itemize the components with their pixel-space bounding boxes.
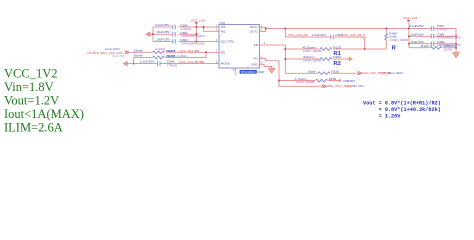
wire OUT2 stub (260, 31, 266, 33)
svg-text:1/16W_1608M: 1/16W_1608M (302, 49, 321, 53)
resistor R1 (320, 48, 332, 51)
wire (160, 63, 219, 65)
wire EN row (131, 51, 153, 53)
svg-text:Iout<1A(MAX): Iout<1A(MAX) (4, 107, 84, 121)
op-amp U15 regulator body (219, 25, 260, 69)
junction (364, 48, 366, 50)
wire R2 row (285, 58, 346, 60)
capacitor C389 (431, 42, 433, 47)
svg-text:1/16W_1608M: 1/16W_1608M (389, 38, 408, 42)
node output bus (408, 21, 410, 48)
power node VDB3P3 (339, 80, 341, 82)
junction (455, 47, 457, 49)
capacitor C380 (173, 25, 175, 30)
wire FB pin (260, 44, 286, 46)
junction (265, 28, 267, 30)
svg-text:GRM188R61E106: GRM188R61E106 (181, 41, 205, 45)
wire PG net row (279, 85, 321, 87)
wire PG pullup row (279, 80, 339, 82)
svg-text:= 0.8V*(1+40.2k/82k): = 0.8V*(1+40.2k/82k) (379, 107, 441, 113)
svg-text:10uF/16V: 10uF/16V (410, 32, 424, 36)
capacitor C386 (331, 35, 333, 40)
svg-text:VCC_1V2_MODE: VCC_1V2_MODE (179, 60, 204, 64)
svg-text:0.1uF/25V: 0.1uF/25V (155, 23, 170, 27)
capacitor C382 (173, 39, 175, 44)
junction (196, 41, 198, 43)
wire row3 (153, 41, 197, 43)
svg-text:SS_CTRL: SS_CTRL (221, 40, 235, 44)
node gnd bus right (455, 29, 457, 53)
svg-text:1/16W_1608M: 1/16W_1608M (295, 80, 314, 84)
svg-text:FB: FB (254, 43, 258, 47)
svg-text:17R409: 17R409 (167, 64, 178, 68)
ground (268, 68, 275, 73)
svg-text:1/16W_1608M: 1/16W_1608M (302, 59, 321, 63)
svg-text:10uF/25V: 10uF/25V (156, 30, 170, 34)
svg-text:Vout=1.2V: Vout=1.2V (4, 94, 59, 108)
svg-text:MODE: MODE (221, 62, 230, 66)
ground pad arrow (234, 72, 237, 74)
svg-text:[73: [73 (347, 84, 352, 88)
off-page arrow right (349, 57, 352, 61)
off-page connector arrow MODE (123, 61, 127, 66)
junction (285, 28, 287, 30)
junction (408, 43, 410, 45)
junction (205, 52, 207, 54)
wire out cap row1 (409, 28, 456, 30)
off-page connector input arrow (149, 33, 153, 35)
svg-text:1/10W: 1/10W (444, 47, 453, 51)
off-page chevron (357, 72, 362, 75)
svg-text:From MAC: From MAC (389, 71, 405, 75)
svg-text:VCC_1V2: VCC_1V2 (4, 67, 57, 81)
capacitor C384 (158, 61, 160, 66)
off-page chevron (125, 51, 130, 54)
wire to IN2 (204, 27, 220, 31)
wire TRIM row (285, 72, 356, 74)
wire (166, 51, 219, 53)
svg-text:R120: R120 (421, 44, 429, 48)
svg-text:VDB3P3: VDB3P3 (343, 79, 355, 83)
resistor FB381 (153, 56, 165, 59)
svg-text:PG: PG (253, 57, 258, 61)
wire bleeder row (409, 47, 456, 49)
svg-text:GND: GND (251, 62, 259, 66)
wire main output (266, 28, 409, 30)
resistor R120 (430, 46, 442, 49)
svg-text:17R402: 17R402 (437, 27, 448, 31)
ground (453, 53, 460, 58)
junction (152, 33, 154, 35)
svg-text:R230: R230 (331, 69, 339, 73)
capacitor C388 (431, 34, 433, 39)
part number label TPS7A8500 (240, 70, 257, 74)
junction (455, 36, 457, 38)
svg-text:33ohm: 33ohm (134, 48, 144, 52)
wire to IN1 (197, 26, 220, 28)
svg-text:OUT2: OUT2 (250, 29, 258, 33)
wire divider node row (285, 48, 386, 50)
svg-text:RGR: RGR (258, 70, 266, 74)
svg-text:ILIM=2.6A: ILIM=2.6A (4, 121, 63, 135)
svg-text:R158: R158 (329, 77, 337, 81)
wire out cap row3 (409, 43, 456, 45)
svg-text:VCC_1V2: VCC_1V2 (404, 16, 418, 20)
capacitor C387 (431, 26, 433, 31)
svg-text:R2: R2 (333, 61, 340, 67)
wire down to MODE row (133, 58, 135, 64)
svg-text:VCC_1V8: VCC_1V8 (191, 18, 205, 22)
thermal pad pin 5 (235, 68, 237, 72)
resistor R230 (318, 72, 330, 75)
node input bus left (152, 27, 154, 42)
junction (133, 63, 135, 65)
junction (455, 43, 457, 45)
wire MODE row (126, 63, 157, 65)
wire row2 (153, 33, 197, 35)
svg-text:10uF/25V: 10uF/25V (156, 38, 170, 42)
svg-text:0ohm: 0ohm (308, 69, 316, 73)
wire OUT tie (265, 27, 267, 31)
svg-text:TPS7A8500: TPS7A8500 (240, 70, 256, 74)
svg-text:EN: EN (221, 50, 225, 54)
note block green (4, 67, 84, 135)
svg-text:= 1.20V: = 1.20V (379, 113, 402, 119)
capacitor C381 (173, 32, 175, 37)
svg-text:[73: [73 (382, 71, 387, 75)
wire PG path (260, 59, 280, 87)
wire row1 (153, 26, 197, 28)
junction (196, 26, 198, 28)
svg-text:IN2: IN2 (221, 29, 226, 33)
junction (285, 58, 287, 60)
wire MODE-branch row (134, 57, 152, 59)
svg-text:FL4942: FL4942 (155, 47, 165, 51)
junction (203, 26, 205, 28)
note block formula blue (363, 100, 441, 119)
wire to SS_CTRL (197, 41, 220, 43)
svg-text:R182: R182 (333, 55, 341, 59)
svg-text:R125: R125 (333, 46, 341, 50)
off-page chevron (321, 85, 326, 88)
svg-text:VCC_1V2_FB_C: VCC_1V2_FB_C (342, 33, 366, 37)
junction (386, 28, 388, 30)
resistor R158 (316, 79, 328, 82)
wire OUT1 stub (260, 26, 266, 28)
wire up to EN row (166, 52, 206, 57)
resistor R vertical (385, 29, 387, 50)
junction (285, 48, 287, 50)
junction (278, 80, 280, 82)
svg-text:56ohm: 56ohm (134, 54, 144, 58)
junction (196, 33, 198, 35)
svg-text:0.1uF/25V: 0.1uF/25V (140, 59, 155, 63)
svg-text:MAC_VCC_1V2_PG: MAC_VCC_1V2_PG (326, 84, 355, 88)
svg-text:Vout = 0.8V*(1+(R+R1)/R2): Vout = 0.8V*(1+(R+R1)/R2) (363, 100, 441, 106)
svg-text:VCC_1V2_FB: VCC_1V2_FB (288, 33, 307, 37)
svg-text:To CPU: To CPU (354, 84, 365, 88)
wire GND pin (260, 64, 272, 68)
svg-text:0.1uF/25V: 0.1uF/25V (409, 24, 424, 28)
junction (408, 36, 410, 38)
wire out cap row2 (409, 35, 456, 37)
node FB rail (284, 45, 286, 73)
svg-text:0.1uF/16V: 0.1uF/16V (312, 33, 327, 37)
junction (408, 28, 410, 30)
resistor R2 (320, 58, 332, 61)
svg-text:Vin=1.8V: Vin=1.8V (4, 80, 54, 94)
svg-text:From CPU: From CPU (112, 54, 125, 58)
wire feed-forward branch (285, 29, 364, 50)
resistor FB325 (153, 51, 165, 54)
